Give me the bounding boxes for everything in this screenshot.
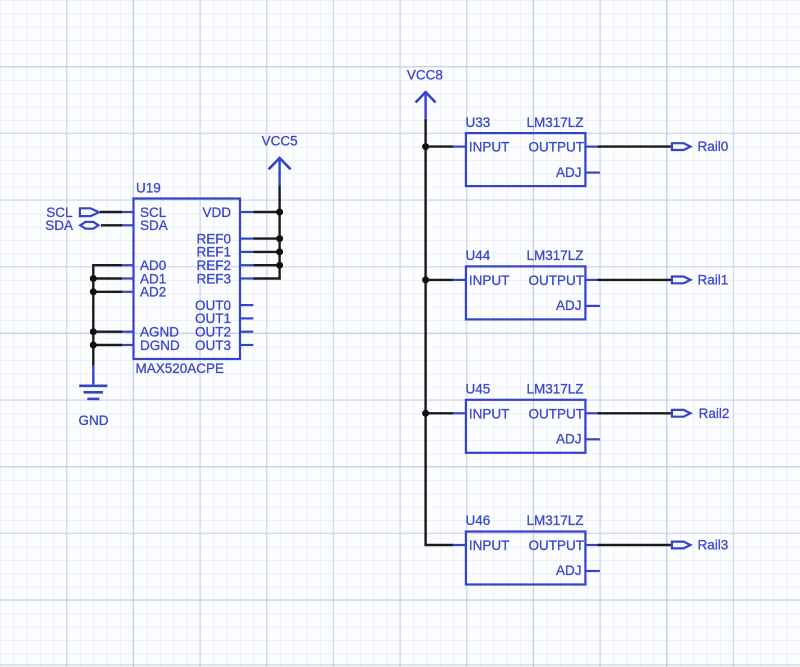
- wire AGND to bus: [93, 331, 122, 333]
- wire SDA: [101, 224, 122, 226]
- U44 pin OUTPUT: [585, 279, 600, 281]
- wire VCC8 vertical rail: [424, 119, 426, 545]
- power VCC8: [407, 67, 443, 118]
- port Rail1: [672, 273, 728, 288]
- svg-text:INPUT: INPUT: [469, 140, 510, 155]
- wire SCL: [100, 211, 122, 213]
- U33 pin ADJ: [585, 172, 600, 174]
- svg-text:LM317LZ: LM317LZ: [526, 382, 583, 397]
- svg-text:U46: U46: [466, 513, 491, 528]
- U19 body outline: [134, 199, 241, 360]
- junction dots VCC8 rail: [422, 143, 429, 417]
- U19 labels: [136, 180, 232, 376]
- U46 pin ADJ: [585, 570, 600, 572]
- svg-text:Rail0: Rail0: [698, 139, 729, 154]
- wire REF0: [253, 237, 279, 239]
- pin REF2: [240, 264, 253, 266]
- net AD0/AD1/AD2/AGND/DGND to GND: [93, 265, 122, 367]
- U45 pin ADJ: [585, 438, 600, 440]
- svg-text:LM317LZ: LM317LZ: [526, 115, 583, 130]
- svg-text:OUTPUT: OUTPUT: [529, 273, 585, 288]
- wire AD2 to bus: [93, 291, 122, 293]
- svg-text:SDA: SDA: [140, 218, 168, 233]
- U45 pin OUTPUT: [585, 412, 600, 414]
- svg-text:U33: U33: [466, 115, 491, 130]
- svg-text:ADJ: ADJ: [556, 563, 582, 578]
- svg-text:OUT3: OUT3: [195, 338, 231, 353]
- svg-text:U45: U45: [466, 382, 491, 397]
- svg-text:OUTPUT: OUTPUT: [529, 140, 585, 155]
- pin OUT3: [240, 344, 253, 346]
- wire REF1: [253, 251, 279, 253]
- wire U46 OUTPUT to Rail3: [598, 544, 672, 546]
- svg-text:INPUT: INPUT: [469, 273, 510, 288]
- U46 pin OUTPUT: [585, 544, 600, 546]
- svg-text:AD2: AD2: [140, 285, 166, 300]
- svg-text:OUTPUT: OUTPUT: [529, 538, 585, 553]
- pin AD1: [120, 277, 133, 279]
- regulator U33 LM317LZ: [453, 115, 600, 186]
- U45 pin INPUT: [453, 412, 466, 414]
- pin OUT1: [240, 317, 253, 319]
- ground GND: [79, 365, 107, 399]
- pin DGND: [120, 344, 133, 346]
- pin VDD: [240, 211, 253, 213]
- pin REF1: [240, 251, 253, 253]
- pin AD2: [120, 291, 133, 293]
- wire AD0 to bus: [93, 265, 122, 367]
- wire DGND to bus: [93, 344, 122, 346]
- svg-text:SDA: SDA: [45, 218, 73, 233]
- svg-text:LM317LZ: LM317LZ: [526, 513, 583, 528]
- IC U19 MAX520ACPE: [120, 199, 253, 360]
- wire VCC5 rail: [253, 186, 280, 279]
- U33 pin OUTPUT: [585, 146, 600, 148]
- wire REF3: [253, 277, 280, 279]
- port SDA: [45, 218, 98, 233]
- port Rail0: [672, 139, 728, 154]
- wire VCC8 rail: [424, 119, 454, 545]
- wire U45 OUTPUT to Rail2: [598, 412, 672, 414]
- junction dots VCC5 net: [276, 209, 283, 269]
- regulator U46 LM317LZ: [453, 513, 600, 584]
- pin REF0: [240, 238, 253, 240]
- svg-text:Rail2: Rail2: [699, 406, 730, 421]
- svg-text:INPUT: INPUT: [469, 538, 510, 553]
- port Rail3: [672, 538, 728, 553]
- pin SCL: [120, 211, 133, 213]
- pin AGND: [120, 331, 133, 333]
- wire to U46 INPUT: [424, 544, 454, 546]
- svg-text:VDD: VDD: [202, 205, 231, 220]
- svg-text:ADJ: ADJ: [556, 298, 582, 313]
- U44 pin INPUT: [453, 279, 466, 281]
- pin AD0: [120, 264, 133, 266]
- port Rail2: [672, 406, 729, 421]
- U46 pin INPUT: [453, 544, 466, 546]
- svg-text:VCC5: VCC5: [262, 134, 298, 149]
- wire U33 OUTPUT to Rail0: [598, 145, 672, 147]
- pin REF3: [240, 277, 253, 279]
- wire to U45 INPUT: [426, 412, 454, 414]
- U33 pin INPUT: [453, 146, 466, 148]
- pin OUT2: [240, 331, 253, 333]
- svg-text:LM317LZ: LM317LZ: [526, 248, 583, 263]
- wire REF2: [253, 264, 279, 266]
- svg-text:ADJ: ADJ: [556, 432, 582, 447]
- pin SDA: [120, 224, 133, 226]
- power VCC5: [262, 134, 298, 186]
- wire VCC5 vertical: [278, 186, 280, 279]
- wire to U33 INPUT: [426, 145, 454, 147]
- svg-text:DGND: DGND: [140, 338, 180, 353]
- svg-text:Rail3: Rail3: [698, 538, 729, 553]
- wire AD1 to bus: [93, 277, 122, 279]
- wire U44 OUTPUT to Rail1: [598, 279, 672, 281]
- port SCL: [46, 205, 99, 220]
- svg-text:GND: GND: [79, 413, 109, 428]
- regulator U45 LM317LZ: [453, 382, 600, 453]
- svg-text:U44: U44: [466, 248, 491, 263]
- wire to U44 INPUT: [426, 279, 454, 281]
- svg-text:REF3: REF3: [196, 271, 231, 286]
- wire VDD: [253, 211, 279, 213]
- svg-text:MAX520ACPE: MAX520ACPE: [136, 361, 225, 376]
- svg-text:OUTPUT: OUTPUT: [529, 406, 585, 421]
- junction dots AD net: [90, 275, 97, 349]
- svg-text:U19: U19: [136, 180, 161, 195]
- svg-text:INPUT: INPUT: [469, 406, 510, 421]
- U44 pin ADJ: [585, 305, 600, 307]
- svg-text:VCC8: VCC8: [407, 67, 443, 82]
- svg-text:ADJ: ADJ: [556, 165, 582, 180]
- pin OUT0: [240, 304, 253, 306]
- svg-text:Rail1: Rail1: [698, 273, 729, 288]
- regulator U44 LM317LZ: [453, 248, 600, 319]
